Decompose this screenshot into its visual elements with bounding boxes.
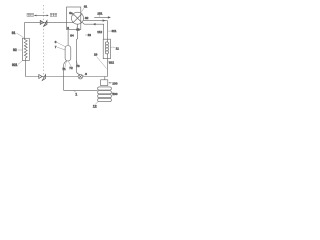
refrigerant line 61->HX (upper, to corner)	[83, 20, 107, 22]
svg-text:6a: 6a	[69, 11, 73, 15]
left down pipe	[24, 61, 26, 77]
svg-text:73: 73	[76, 64, 80, 68]
svg-text:100: 100	[112, 82, 117, 86]
pump 9 (circle with X)	[78, 74, 83, 79]
svg-text:921: 921	[12, 63, 18, 67]
water heat exchanger 92 (box)	[22, 38, 29, 60]
svg-text:63: 63	[76, 27, 80, 31]
four-way valve body (box 6)	[67, 7, 81, 30]
four-way valve rotor (circle with X)	[72, 12, 84, 24]
svg-text:611: 611	[112, 29, 117, 33]
svg-text:13: 13	[88, 33, 92, 37]
bottom loop line to controller	[64, 89, 98, 91]
svg-text:92: 92	[13, 48, 17, 52]
pipe valve bottom to pump	[76, 24, 80, 74]
shutoff valve V1 (top, on boundary)	[40, 20, 47, 26]
svg-text:612: 612	[109, 61, 114, 65]
shutoff valve V2 (bottom, on boundary)	[39, 75, 46, 81]
feed line to controller box	[104, 77, 106, 80]
coil 11 loops	[107, 39, 109, 42]
svg-text:12: 12	[93, 104, 97, 108]
unit boundary dashed line	[43, 5, 45, 80]
air flow arrow 151	[94, 16, 109, 18]
svg-text:61: 61	[84, 4, 88, 8]
pipe capsule to bottom loop	[64, 61, 67, 91]
svg-text:19: 19	[94, 53, 98, 57]
air heat exchanger 11 (box)	[103, 39, 110, 59]
svg-text:7: 7	[55, 45, 57, 49]
arrow to storage (left)	[34, 15, 36, 17]
arrow to supply (right)	[47, 15, 49, 17]
svg-text:91: 91	[12, 31, 16, 35]
pipe 611 down to HX top	[107, 21, 109, 40]
water port line (top)	[34, 14, 47, 16]
refrigerant line (lower, to corner)	[83, 23, 104, 40]
label 貯湯 (storage)	[27, 13, 34, 16]
svg-text:11: 11	[116, 47, 119, 51]
label 給水 (supply)	[50, 13, 57, 16]
svg-text:64: 64	[70, 34, 74, 38]
coil 92 zigzag	[24, 38, 27, 60]
svg-text:1: 1	[75, 92, 77, 96]
controller small box 100	[101, 80, 108, 86]
pipe air HX down to main line	[107, 59, 109, 77]
stack unit 200 (bars)	[98, 87, 112, 90]
svg-text:72: 72	[69, 66, 73, 70]
svg-text:9: 9	[85, 72, 87, 76]
svg-text:62: 62	[85, 16, 89, 20]
pipe valve-to-capsule	[67, 30, 69, 46]
flow arrowhead left on lower line	[93, 23, 96, 25]
left riser pipe	[24, 22, 26, 38]
main bottom line	[25, 76, 107, 78]
svg-text:71: 71	[62, 67, 66, 71]
svg-text:112: 112	[97, 30, 102, 34]
svg-text:8: 8	[55, 40, 57, 44]
water line B (upper connecting line)	[25, 21, 74, 23]
svg-text:151: 151	[97, 11, 102, 15]
flow arrowhead right on upper line	[103, 19, 106, 21]
accumulator 8 / compressor 7 (capsule)	[65, 46, 71, 62]
